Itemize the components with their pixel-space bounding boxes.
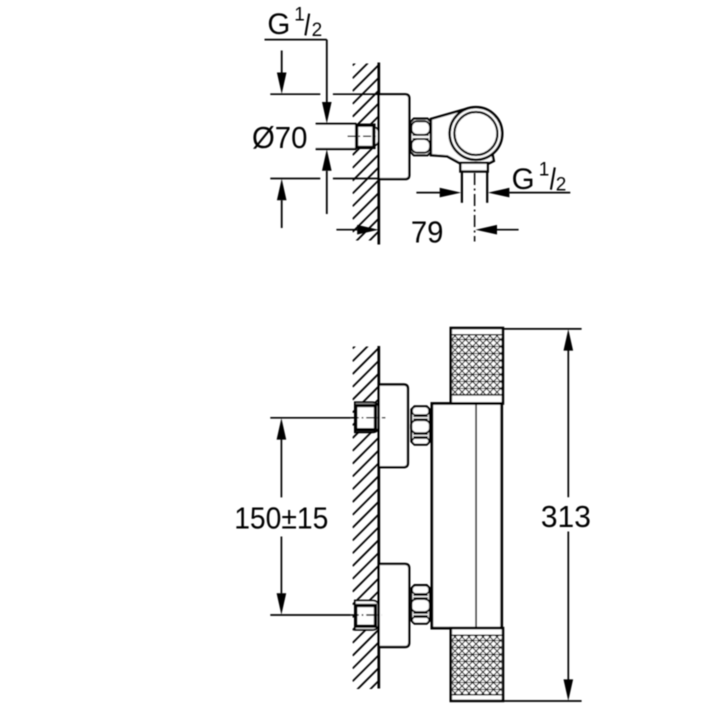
valve body (top view) — [431, 108, 494, 164]
313 dim extension line top — [504, 328, 582, 330]
svg-text:1: 1 — [294, 5, 305, 26]
upper union back-plate — [355, 402, 379, 432]
wall face line (bottom view) — [377, 346, 380, 689]
svg-text:2: 2 — [312, 20, 323, 41]
dia70 extension line top — [270, 93, 320, 95]
svg-text:Ø70: Ø70 — [252, 121, 307, 155]
upper temperature knob — [451, 328, 503, 404]
svg-text:1: 1 — [539, 160, 550, 181]
union centerline (top view) — [348, 135, 376, 137]
dimension 150+-15 — [277, 418, 287, 440]
handle inner circle (top view) — [454, 112, 497, 155]
upper escutcheon — [379, 385, 408, 468]
dimension 79 — [336, 229, 357, 231]
svg-text:150±15: 150±15 — [234, 502, 328, 536]
svg-text:2: 2 — [556, 175, 567, 196]
svg-text:79: 79 — [411, 215, 444, 249]
wall hatching (top view) — [353, 39, 379, 270]
G 1/2 leader line — [265, 39, 327, 41]
supply pipe (top view) — [316, 125, 357, 148]
svg-text:G: G — [267, 8, 290, 41]
dimension 313 — [564, 329, 574, 351]
outlet pipe centerline — [474, 173, 476, 242]
150 dim extension line top — [270, 417, 350, 419]
outlet pipe — [461, 172, 463, 203]
wall union square (top view) — [376, 128, 380, 146]
lower flow knob — [451, 628, 503, 701]
outlet collar nut — [460, 163, 487, 172]
upper connection nut — [411, 406, 430, 445]
lower wall union square — [356, 606, 376, 627]
svg-text:G: G — [512, 163, 535, 196]
lower escutcheon — [379, 564, 409, 647]
connection nut (top view) — [411, 119, 431, 156]
wall hatching (bottom view) — [353, 322, 379, 719]
lower union back-plate — [355, 601, 379, 630]
upper wall union square — [356, 406, 376, 430]
G 1/2 arrow up to pipe — [322, 149, 332, 171]
handle outer circle (top view) — [450, 107, 503, 160]
dia70 extension line bottom — [270, 178, 320, 180]
wall face line (top view) — [377, 63, 380, 245]
dia70 dimension arrow top — [281, 51, 283, 73]
body front edge line — [475, 404, 477, 629]
thread dim arrows at outlet — [416, 192, 440, 194]
lower connection nut — [411, 585, 430, 624]
escutcheon (top view) — [379, 94, 410, 179]
svg-text:313: 313 — [541, 500, 591, 534]
valve body (bottom view) — [432, 404, 502, 629]
313 dim extension line bottom — [504, 700, 582, 702]
dia70 dimension arrow bottom — [277, 179, 287, 201]
150 dim extension line bottom — [270, 614, 350, 616]
